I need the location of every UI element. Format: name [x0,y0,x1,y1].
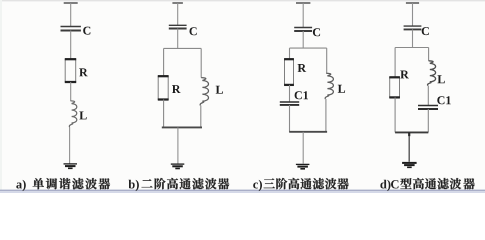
resistor R (d) [389,77,400,97]
caption b [129,178,230,191]
inductor L (c) [325,73,333,99]
wire b left lower [163,100,165,128]
capacitor C (b) [169,25,187,28]
wire b box top [164,47,202,49]
capacitor C1 (c) [280,102,299,105]
wire d cap-to-box [412,29,414,47]
wire d right upper [428,48,430,61]
wire d left upper [394,48,396,78]
wire a L-to-gnd [69,127,71,164]
wire c top [302,3,304,28]
label R b [172,85,181,93]
wire c left upper [289,48,291,59]
label C c [313,28,320,36]
wire a top [70,3,72,27]
wire b box bottom [162,126,202,128]
bottom blue band [0,190,485,192]
caption a [16,178,110,191]
wire d junction nub [408,132,410,136]
capacitor C (c) [294,28,312,32]
ground b [171,164,185,168]
label L c [338,85,345,93]
ground c [296,164,310,168]
terminal a [64,2,78,4]
inductor L (a) [69,101,76,127]
ground a [64,164,78,168]
resistor R (b) [158,76,169,99]
capacitor C1 (d) [418,106,438,110]
wire d L-to-C1 [427,86,429,106]
wire d box-to-gnd [408,136,410,162]
wire c right lower [325,99,327,132]
wire d top [412,3,414,26]
wire d right lower [427,109,429,132]
label C1 c [295,91,308,99]
label L a [79,112,86,120]
wire b cap-to-box [177,29,179,49]
label C b [190,27,197,35]
wire b top [177,3,179,25]
inductor L (d) [428,61,436,86]
inductor L (b) [200,78,208,106]
label R d [400,71,409,79]
label C d [422,27,429,35]
wire c left lower [289,105,291,132]
wire b right lower [200,106,202,128]
ground d [402,163,417,167]
wire c box bottom [289,131,327,133]
left scan edge [0,0,2,190]
label R c [298,64,307,72]
wire c right upper [326,48,328,73]
top scan edge [0,0,485,1]
label C1 d [437,96,450,104]
terminal d [406,2,419,4]
wire a cap-to-R [70,31,72,60]
wire d box bottom [395,131,428,133]
wire b box-to-gnd [177,127,179,163]
capacitor C (d) [404,26,422,29]
terminal c [296,2,310,4]
wire c box-to-gnd [302,132,304,164]
label L d [438,75,445,83]
wire b left upper [163,48,165,76]
wire d box top [395,47,429,49]
wire b right upper [200,48,202,77]
terminal b [172,2,183,4]
caption c [253,178,349,191]
wire a R-to-L [70,82,72,101]
resistor R (a) [65,59,76,82]
wire c cap-to-box [302,31,304,48]
label R a [79,68,88,76]
wire c box top [290,47,327,49]
caption d [380,178,474,191]
label C a [83,27,90,35]
wire d left lower [394,97,396,132]
wire c R-to-C1 [289,85,291,102]
label L b [216,86,223,94]
resistor R (c) [284,59,294,85]
capacitor C (a) [61,27,81,31]
